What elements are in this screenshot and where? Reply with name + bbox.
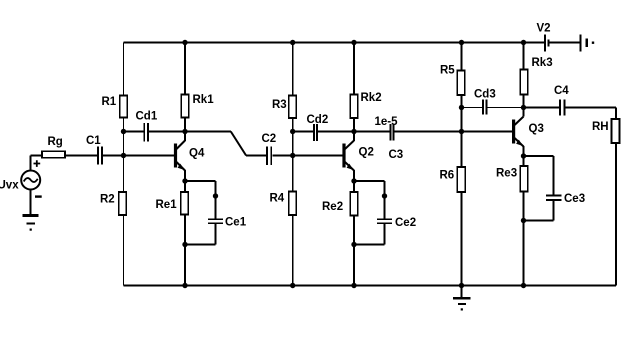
svg-text:R2: R2 [100, 194, 115, 206]
svg-text:Re1: Re1 [156, 199, 178, 211]
svg-text:V2: V2 [537, 23, 551, 35]
svg-text:C1: C1 [86, 135, 101, 147]
svg-text:Rk1: Rk1 [193, 94, 215, 106]
svg-text:Rg: Rg [48, 136, 63, 148]
svg-text:C2: C2 [262, 133, 277, 145]
svg-text:Re3: Re3 [496, 167, 517, 179]
svg-text:Cd2: Cd2 [307, 114, 329, 126]
svg-text:C4: C4 [554, 85, 569, 97]
svg-text:Rk2: Rk2 [361, 92, 382, 104]
svg-text:Ce2: Ce2 [395, 217, 416, 229]
svg-text:C3: C3 [389, 149, 404, 161]
svg-text:Q4: Q4 [189, 148, 205, 160]
svg-text:Q3: Q3 [529, 123, 544, 135]
svg-text:R1: R1 [102, 96, 117, 108]
svg-text:Q2: Q2 [359, 146, 374, 158]
svg-text:RH: RH [592, 121, 609, 133]
svg-text:R4: R4 [270, 193, 285, 205]
svg-text:Cd1: Cd1 [136, 111, 158, 123]
svg-text:Ce3: Ce3 [564, 193, 585, 205]
svg-text:Ce1: Ce1 [225, 217, 247, 229]
svg-text:1e-5: 1e-5 [375, 116, 399, 128]
svg-text:R6: R6 [440, 169, 455, 181]
svg-text:Uvx: Uvx [0, 179, 19, 191]
svg-text:Rk3: Rk3 [532, 57, 553, 69]
svg-text:Cd3: Cd3 [474, 89, 496, 101]
svg-text:Re2: Re2 [322, 201, 343, 213]
svg-text:R5: R5 [440, 65, 455, 77]
svg-text:R3: R3 [272, 99, 287, 111]
